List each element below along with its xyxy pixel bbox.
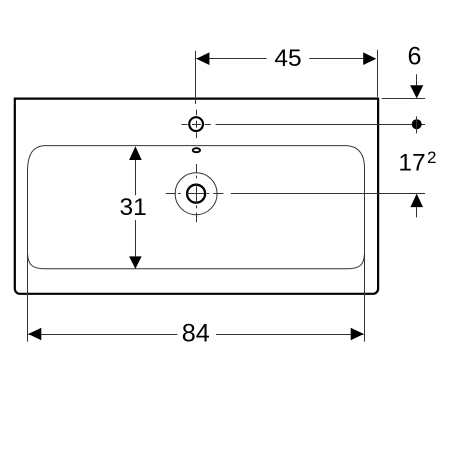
dimension endpoint dot <box>412 119 422 129</box>
dimension 6: extension line at rim <box>382 98 425 100</box>
dimension 31: down arrowhead <box>129 256 142 269</box>
svg-text:84: 84 <box>182 319 210 347</box>
svg-text:45: 45 <box>274 45 301 72</box>
svg-text:2: 2 <box>427 148 436 167</box>
drain centerline ticks <box>166 164 224 222</box>
dimension 17^2: leader tail <box>416 207 418 217</box>
drain axis long line <box>231 193 425 195</box>
dimension 6: down arrowhead <box>410 85 423 98</box>
faucet hole centerline ticks <box>182 110 211 138</box>
svg-text:17: 17 <box>398 150 425 177</box>
washbasin outer outline <box>15 99 378 294</box>
drain outer circle <box>175 173 217 215</box>
inner bowl outline <box>28 146 365 269</box>
dimension 84: extension line right <box>364 253 366 342</box>
svg-text:31: 31 <box>119 194 146 221</box>
overflow hole <box>193 148 200 152</box>
dimension 84: line segments <box>28 334 177 336</box>
dimension 45: left arrowhead <box>196 52 209 65</box>
dimension 31: line lower segment <box>135 220 137 256</box>
svg-text:6: 6 <box>408 43 422 71</box>
faucet axis long line to dot <box>216 124 425 126</box>
dimension 45: right arrowhead <box>363 52 376 65</box>
dot vertical tick <box>416 116 418 133</box>
dimension 84: right arrowhead <box>351 328 364 341</box>
dimension 84: extension line left <box>27 254 29 342</box>
dimension 31: line upper segment <box>135 160 137 195</box>
dimension 17^2: up arrowhead <box>410 194 423 208</box>
faucet hole <box>189 117 203 131</box>
drain inner circle <box>187 185 205 203</box>
dimension 84: left arrowhead <box>28 328 41 341</box>
dimension 31: up arrowhead <box>129 146 142 160</box>
dimension 45: extension line right <box>377 50 379 97</box>
dimension 45: extension line left (through faucet axis) <box>195 51 197 104</box>
dimension 6: leader line <box>416 74 418 85</box>
dimension 45: line segments <box>196 58 266 60</box>
